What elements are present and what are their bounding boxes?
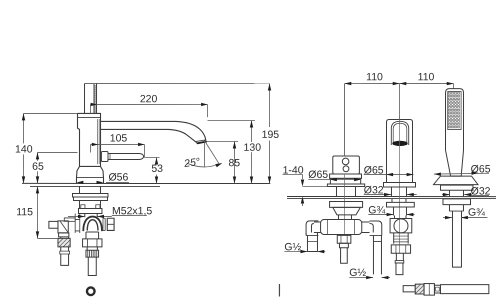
component C: under-deck locknut and shank [443, 199, 471, 267]
center column under valve [83, 232, 102, 276]
lever handle (horizontal) [101, 152, 143, 162]
component A: under-deck locknut and taper [330, 202, 363, 220]
svg-text:Ø65: Ø65 [471, 163, 491, 175]
dimension 220 [91, 104, 208, 117]
dimension 85 [207, 141, 238, 183]
svg-text:220: 220 [140, 93, 158, 105]
svg-text:195: 195 [262, 129, 280, 141]
dimension 195 [269, 84, 271, 127]
dimension 53 [144, 157, 159, 183]
component B: outlet (black ellipse) [392, 141, 407, 146]
component B: centerline [398, 119, 400, 253]
svg-text:115: 115 [16, 206, 33, 218]
dimension 1-40 [283, 175, 328, 207]
svg-text:G¾: G¾ [468, 207, 485, 219]
spout outlet foot [196, 140, 207, 144]
body base escutcheon (bell) [76, 166, 103, 183]
label G3/4 (component B) [368, 214, 393, 216]
dimension 105 [90, 144, 144, 157]
deck line (left drawing) [22, 182, 270, 184]
component A: bottom union [337, 235, 351, 263]
label G3/4 (component C) [443, 217, 452, 219]
dome [83, 217, 102, 232]
svg-text:G½: G½ [349, 267, 366, 279]
label M52x1,5 [68, 215, 147, 216]
svg-text:140: 140 [15, 144, 33, 156]
svg-text:M52x1,5: M52x1,5 [112, 205, 152, 217]
svg-text:Ø32: Ø32 [364, 184, 384, 196]
label diameter 65 (component B) [364, 174, 414, 176]
component B: base and shank [383, 183, 415, 219]
dimension 130 [207, 120, 255, 183]
component A: left arm and elbow [306, 221, 321, 252]
right port box [107, 218, 114, 230]
label diameter 32 (component C) [442, 194, 450, 196]
valve left wall [75, 214, 80, 233]
svg-text:Ø65: Ø65 [308, 169, 328, 181]
component C: spray face grid [448, 92, 461, 130]
svg-text:G¾: G¾ [368, 204, 385, 216]
svg-text:130: 130 [244, 142, 262, 154]
label G1/2 (component A left) [284, 251, 307, 253]
svg-text:Ø65: Ø65 [364, 165, 384, 177]
dimension 140 [23, 113, 77, 183]
component B: swivel ball joint [390, 219, 412, 233]
component A: tee body [321, 220, 362, 235]
bottom hand shower hose wand [403, 284, 489, 296]
hose stub line [278, 284, 280, 297]
svg-text:105: 105 [110, 133, 128, 145]
label diameter 32 (component B) [364, 194, 391, 196]
svg-text:Ø32: Ø32 [471, 185, 491, 197]
component C: escutcheon bell [433, 176, 478, 197]
dimension 65 [37, 152, 77, 183]
svg-text:110: 110 [366, 71, 383, 83]
svg-text:110: 110 [418, 71, 435, 83]
handle-top extension line [85, 82, 271, 84]
right port strip [103, 218, 105, 230]
svg-text:85: 85 [228, 157, 240, 169]
left elbow and hose [49, 218, 75, 266]
under-deck shank and locknut [72, 186, 108, 208]
svg-text:Ø56: Ø56 [108, 172, 128, 184]
svg-text:65: 65 [32, 161, 44, 173]
svg-text:53: 53 [151, 163, 163, 175]
faucet body [77, 113, 100, 166]
svg-text:25°: 25° [182, 156, 200, 170]
svg-text:G½: G½ [284, 241, 301, 253]
label diameter 65 (component C) [434, 172, 489, 175]
dimension 115 [37, 186, 58, 238]
component A: mixer control knob [333, 156, 360, 174]
M52 flange [78, 208, 102, 217]
component A: centerline [343, 84, 345, 157]
component A: right arm and elbow [362, 221, 382, 274]
label diameter 65 (component A) [308, 179, 361, 181]
component A: flange and escutcheon [327, 174, 364, 197]
dimension 110 / 110 [344, 84, 453, 157]
label G1/2 (component A right) [349, 277, 373, 279]
svg-text:1-40: 1-40 [283, 165, 304, 177]
mounting ring (bottom circle) [87, 287, 95, 295]
valve body (left drawing) [75, 214, 114, 233]
25 degree swivel indication [187, 140, 219, 166]
component C: hand shower head [445, 89, 463, 177]
deck lines (right drawing) [287, 196, 496, 198]
component B: spout body [386, 120, 412, 183]
component B: hose ribs, hex and tube [391, 233, 410, 275]
faucet top rod (handle stem) [85, 83, 97, 113]
dimension diameter 56 [76, 181, 83, 184]
spout [101, 121, 206, 142]
